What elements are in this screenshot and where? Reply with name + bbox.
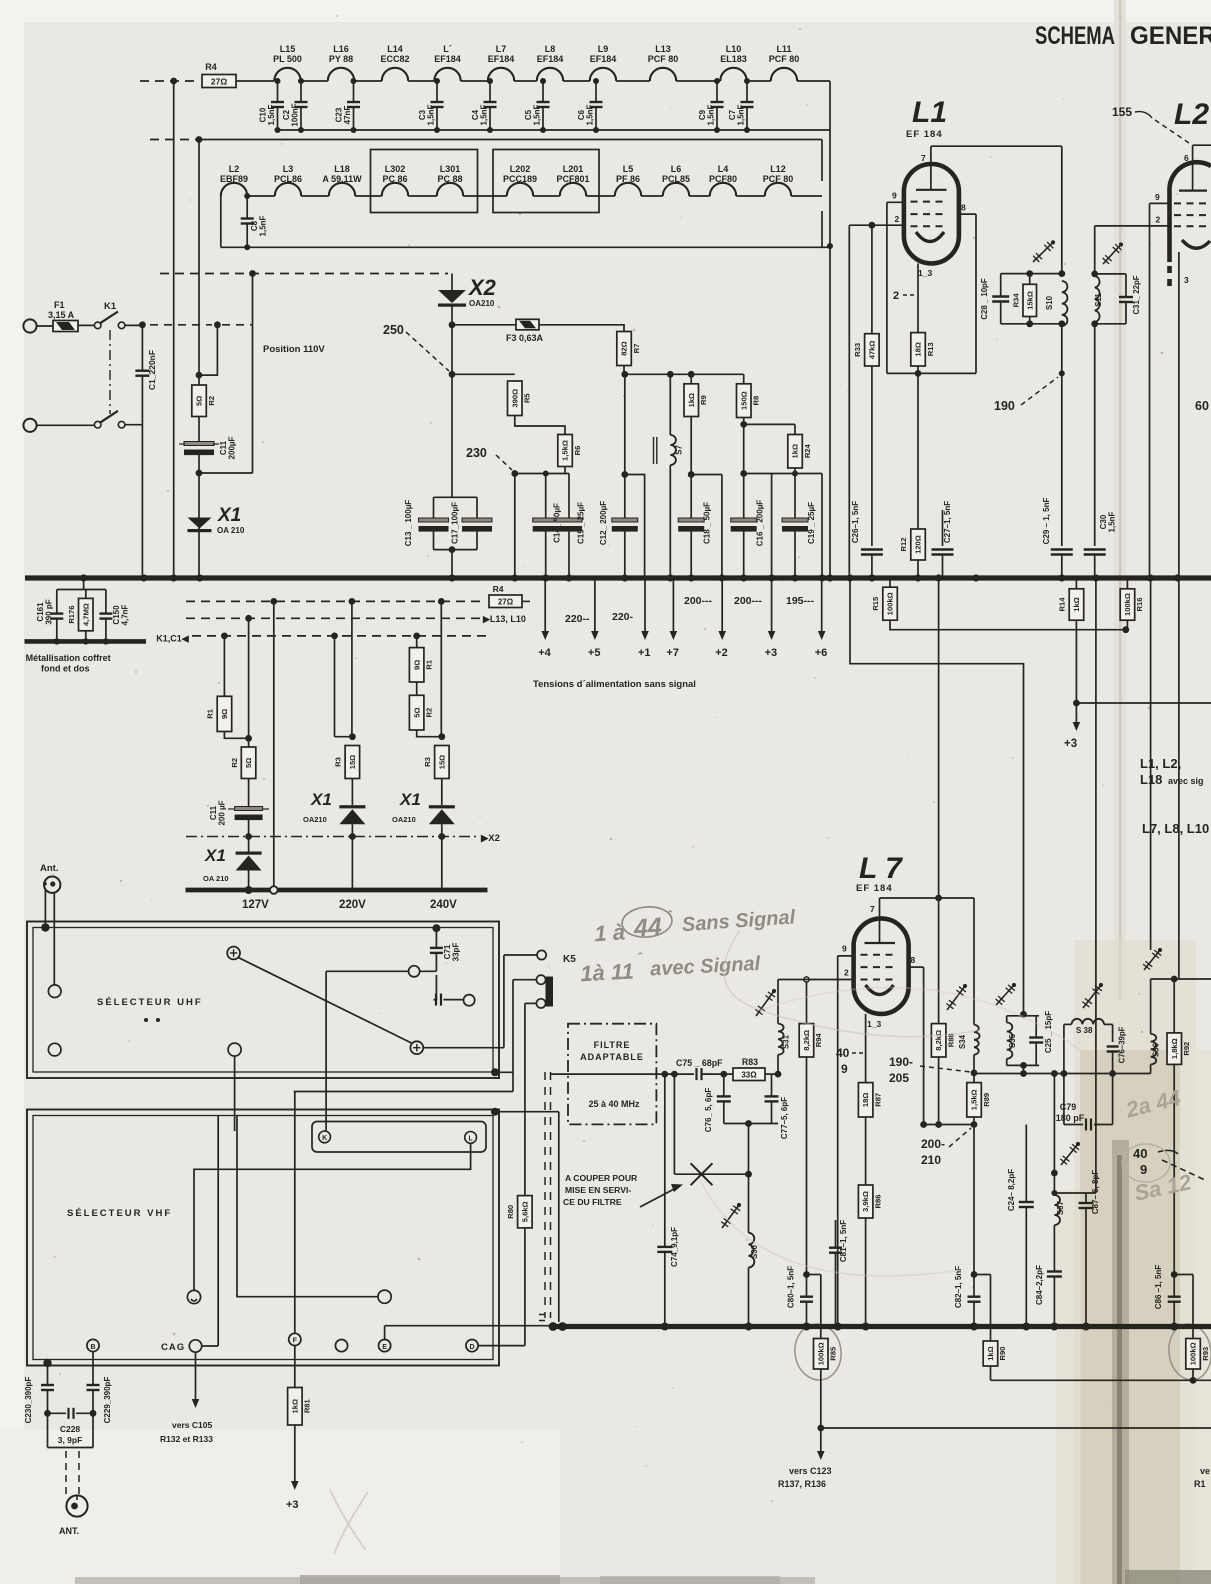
svg-text:5Ω: 5Ω — [195, 396, 204, 406]
wire dashed row y=273 to X2 — [160, 273, 448, 275]
wire R5 column to bus — [514, 474, 516, 579]
svg-text:390 pF: 390 pF — [45, 599, 54, 624]
capacitor C1 (220nF) — [141, 325, 143, 371]
L7 plate bar — [865, 942, 896, 944]
svg-text:MISE EN SERVI-: MISE EN SERVI- — [565, 1185, 631, 1195]
L1 pin 2 wire — [849, 224, 904, 226]
wire dashed mains rail — [150, 324, 212, 326]
svg-text:Tensions d´alimentation sans: Tensions d´alimentation sans signal — [533, 679, 696, 690]
svg-text:Ant.: Ant. — [40, 863, 58, 874]
svg-text:+2: +2 — [715, 647, 728, 659]
resistor R1 (9ohm) col1 — [217, 696, 232, 731]
svg-text:1,5nF: 1,5nF — [586, 104, 595, 125]
svg-text:5Ω: 5Ω — [244, 758, 253, 768]
L1 cathode — [916, 232, 944, 242]
wire grid-return step to S35 — [850, 578, 1024, 1014]
L1 pin 9 wire — [887, 201, 904, 203]
svg-text:R4: R4 — [493, 584, 504, 594]
wire tap to +6 — [821, 474, 823, 579]
L7 pin 8 wire — [909, 966, 924, 968]
capacitor C86 (1,5nF) with R93 elbow — [1171, 1271, 1178, 1278]
capacitor C13 C17 (100uF) loop — [451, 374, 453, 497]
wire E to bus2 — [384, 1326, 386, 1340]
svg-text:ve: ve — [1200, 1466, 1210, 1476]
svg-text:C229_390pF: C229_390pF — [103, 1377, 112, 1424]
wire col1 jog — [224, 732, 248, 739]
tube L7 EF184 envelope — [854, 918, 909, 1014]
resistor R15 (100kohm) — [889, 578, 891, 587]
terminal B — [87, 1339, 99, 1351]
svg-text:190: 190 — [994, 399, 1015, 413]
svg-text:C228: C228 — [60, 1424, 81, 1434]
svg-text:200---: 200--- — [734, 595, 763, 607]
main chassis bus — [25, 575, 1211, 580]
resistor R6 (1,5kohm) — [558, 435, 573, 467]
svg-text:8,2kΩ: 8,2kΩ — [802, 1030, 811, 1051]
filament coil L13 PCF 80 — [650, 68, 676, 81]
node C1 top — [139, 321, 146, 328]
svg-text:OA 210: OA 210 — [203, 874, 229, 883]
wire Ant second lead into box — [53, 893, 55, 986]
svg-text:2: 2 — [1156, 215, 1161, 225]
L7 cathode lead — [865, 1014, 867, 1083]
svg-text:S11: S11 — [1094, 293, 1103, 307]
dashed pair filter ground link — [544, 1072, 546, 1318]
svg-text:PCF 80: PCF 80 — [763, 174, 794, 184]
resistor R1 (9ohm) col3 — [409, 648, 424, 682]
svg-text:200-: 200- — [921, 1137, 945, 1151]
wire connector lower to R80 — [525, 1002, 537, 1004]
svg-text:OA210: OA210 — [392, 815, 416, 824]
svg-text:127V: 127V — [242, 899, 269, 911]
pencil faint curves — [724, 930, 980, 1037]
pencil circle around R93 — [1165, 1321, 1211, 1382]
wire R14 to +3 node — [1075, 620, 1077, 703]
wire Ant to UHF corner — [44, 890, 46, 925]
wire R85 to vers C123 node — [820, 1369, 822, 1428]
trimmer capacitor S37 — [1061, 1144, 1078, 1165]
svg-text:L1: L1 — [912, 96, 947, 129]
capacitor C2 (100nF) heater decoupling — [300, 81, 302, 102]
svg-text:OA210: OA210 — [303, 815, 327, 824]
resistor R80 (5,6kohm) — [518, 1196, 533, 1228]
svg-text:C84–2,2pF: C84–2,2pF — [1035, 1265, 1044, 1305]
svg-text:C18 _ 50µF: C18 _ 50µF — [703, 502, 712, 544]
svg-text:1,5nF: 1,5nF — [259, 215, 268, 236]
svg-text:vers C123: vers C123 — [789, 1466, 832, 1476]
svg-text:40: 40 — [1133, 1146, 1147, 1161]
svg-text:C28 _ 10pF: C28 _ 10pF — [980, 278, 989, 319]
wire L to lower circle — [194, 1143, 471, 1290]
terminal L — [465, 1132, 477, 1144]
inductor S30 — [749, 1233, 755, 1268]
capacitor C228 (3,9pF) box — [44, 1410, 51, 1417]
wire R5 to R6 hook — [515, 416, 565, 435]
inductor S7 smoothing choke — [669, 374, 671, 435]
wire row2 node down to R2 — [198, 140, 200, 386]
wire filter bottom rail — [724, 1123, 778, 1125]
capacitor C76 (5,6pF) — [723, 1074, 725, 1096]
svg-text:FILTRE: FILTRE — [594, 1040, 631, 1050]
svg-text:OA210: OA210 — [469, 299, 495, 308]
wire S37 C87 rail — [1054, 1192, 1096, 1194]
svg-text:X2: X2 — [467, 275, 497, 300]
capacitor C3 (1,5nF) heater decoupling — [436, 81, 438, 102]
svg-text:1kΩ: 1kΩ — [687, 393, 696, 408]
svg-text:1kΩ: 1kΩ — [290, 1399, 299, 1414]
svg-text:C87– 6, 8pF: C87– 6, 8pF — [1091, 1170, 1100, 1215]
svg-text:R7: R7 — [632, 344, 641, 354]
svg-text:avec sig: avec sig — [1168, 776, 1204, 786]
fuse F1 3,15A — [53, 321, 78, 332]
svg-text:CE DU FILTRE: CE DU FILTRE — [563, 1197, 622, 1207]
svg-text:S37: S37 — [1056, 1201, 1065, 1215]
tube L2 envelope partial — [1169, 162, 1211, 262]
wire VHF top right to bus start — [491, 1108, 499, 1116]
svg-text:390Ω: 390Ω — [510, 389, 519, 408]
svg-text:PY 88: PY 88 — [329, 54, 353, 64]
wire 230V rail — [515, 473, 569, 475]
wire switch outputs to C1 node — [125, 324, 142, 326]
wire vertical x=252 to dashed row — [252, 274, 254, 474]
capacitor C18 (50uF) — [688, 471, 695, 478]
diode X1 col3 (OA210) — [441, 779, 443, 806]
large scan stain lower right — [1074, 940, 1196, 1584]
terminal circle VHF mid-left — [187, 1290, 200, 1303]
trimmer capacitor S30 — [722, 1205, 739, 1228]
svg-text:R4: R4 — [205, 62, 217, 72]
svg-text:+4: +4 — [538, 647, 551, 659]
filament coil L15 PL 500 — [274, 68, 300, 81]
wire R7 node rail to S7 R9 — [621, 371, 628, 378]
terminal circle plain bottom — [335, 1340, 347, 1352]
wire chain1 return vertical — [829, 81, 831, 578]
resistor R93 (100kohm) — [1186, 1339, 1201, 1370]
svg-text:R16: R16 — [1135, 598, 1144, 612]
L2 plate and pin6 — [1193, 144, 1211, 146]
svg-text:155: 155 — [1112, 105, 1132, 119]
svg-text:PC 86: PC 86 — [382, 174, 407, 184]
capacitor C8 (1,5nF) — [244, 193, 250, 199]
svg-text:C29 – 1, 5nF: C29 – 1, 5nF — [1042, 498, 1051, 545]
svg-text:R24: R24 — [803, 443, 812, 458]
wire dashed feed to R4 — [140, 80, 199, 82]
tank circuit C28 R34 S10 — [1061, 146, 1063, 273]
svg-text:195---: 195--- — [786, 595, 815, 607]
svg-text:L6: L6 — [671, 164, 682, 174]
capacitor C24 (8,2pF) — [1025, 1125, 1027, 1203]
bus junction dots — [80, 574, 87, 581]
svg-text:1,5kΩ: 1,5kΩ — [561, 440, 570, 461]
svg-text:K5: K5 — [563, 954, 576, 965]
svg-text:L302: L302 — [385, 164, 406, 174]
svg-text:C19 _ 25µF: C19 _ 25µF — [807, 502, 816, 544]
node dashed row position 110V — [249, 270, 256, 277]
svg-text:1à 11: 1à 11 — [580, 958, 635, 986]
svg-text:1_3: 1_3 — [918, 268, 932, 278]
terminal plus UHF upper — [227, 947, 240, 960]
svg-text:ECC82: ECC82 — [380, 54, 409, 64]
resistor R2 (5ohm) mains dropper — [192, 385, 207, 417]
capacitor C29 (1,5nF) — [1051, 548, 1073, 550]
wire connector upper to F rail — [513, 979, 536, 981]
capacitor C71 (33pF) — [432, 924, 440, 932]
inductor S10 — [1062, 281, 1068, 326]
resistor R3 (15ohm) col3 — [435, 746, 450, 779]
svg-text:2: 2 — [893, 290, 899, 302]
capacitor C14 (50uF) — [545, 474, 547, 519]
svg-text:EF 184: EF 184 — [856, 883, 893, 894]
filament coil L3 PCL86 — [275, 183, 301, 196]
capacitor C26 (1,5nF) — [861, 548, 883, 550]
terminal mains upper — [23, 319, 36, 332]
filament coil L18 A 59,11W — [329, 183, 355, 196]
wire L1 anode top — [931, 145, 1062, 147]
svg-text:PL 500: PL 500 — [273, 54, 302, 64]
terminal ANT bottom — [66, 1495, 87, 1516]
svg-text:15kΩ: 15kΩ — [1025, 291, 1034, 310]
resistor R85 (100kohm) — [814, 1339, 829, 1370]
wire rail R89 S35 S38 S36 — [974, 1073, 1151, 1075]
svg-text:L7: L7 — [496, 44, 507, 54]
resistor R87 (18ohm) — [858, 1083, 873, 1117]
svg-text:R2: R2 — [207, 396, 216, 406]
L2 grid dashes — [1174, 202, 1211, 204]
wire filter row — [551, 1073, 694, 1075]
paper speckles — [408, 244, 410, 246]
svg-text:R3: R3 — [423, 757, 432, 767]
svg-text:C1_220nF: C1_220nF — [147, 350, 157, 390]
svg-text:200 µF: 200 µF — [218, 800, 227, 825]
capacitor C31 (22pF) — [1125, 274, 1127, 297]
svg-text:S31: S31 — [782, 1034, 791, 1049]
svg-text:120Ω: 120Ω — [914, 535, 923, 554]
pencil scribble 2a44 right — [1123, 1085, 1183, 1123]
svg-text:R137, R136: R137, R136 — [778, 1479, 826, 1489]
svg-text:7: 7 — [921, 153, 926, 163]
svg-text:100kΩ: 100kΩ — [1189, 1342, 1198, 1365]
bottom scan edge band — [75, 1577, 815, 1584]
svg-text:K1,C1◀: K1,C1◀ — [156, 634, 190, 644]
svg-text:205: 205 — [889, 1071, 909, 1085]
svg-text:9: 9 — [842, 944, 847, 954]
svg-text:R5: R5 — [523, 393, 532, 403]
svg-text:PC 88: PC 88 — [437, 174, 462, 184]
svg-text:PCC189: PCC189 — [503, 174, 537, 184]
svg-text:R12: R12 — [899, 538, 908, 552]
svg-text:C76–39pF: C76–39pF — [1118, 1026, 1127, 1063]
svg-text:9: 9 — [892, 191, 897, 201]
capacitor C11 (200uF) electrolytic — [184, 442, 214, 446]
filament coil L11 PCF 80 — [771, 68, 797, 81]
resistor R83 (33ohm) — [733, 1068, 765, 1081]
svg-text:220V: 220V — [339, 899, 366, 911]
svg-text:EF184: EF184 — [537, 54, 564, 64]
inductor S36 — [1150, 578, 1152, 950]
filament coil L14 ECC82 — [382, 68, 408, 81]
filament coil L302 PC 86 — [382, 183, 408, 196]
terminal circle UHF left lower — [48, 1043, 61, 1056]
wire chain1 segments — [301, 80, 328, 82]
inductor S37 — [1054, 1195, 1060, 1225]
svg-text:L10: L10 — [726, 44, 742, 54]
L7 pin 9 wire — [838, 955, 854, 957]
tank S11 C31 — [1094, 226, 1096, 274]
svg-text:L2: L2 — [229, 164, 240, 174]
svg-text:S30: S30 — [750, 1244, 759, 1259]
switch K1 upper pole — [94, 322, 101, 329]
wire chain1 cap rail — [278, 129, 831, 131]
capacitor C16 (200uF) — [743, 474, 745, 519]
svg-text:27Ω: 27Ω — [211, 77, 227, 87]
arrow vers C123 — [820, 1428, 822, 1453]
filament coil L&#180; EF184 — [434, 68, 460, 81]
svg-text:1kΩ: 1kΩ — [1072, 597, 1081, 612]
svg-text:A 59,11W: A 59,11W — [322, 174, 362, 184]
capacitor C82 (1,5nF) with R90 elbow — [973, 1275, 975, 1297]
series capacitor link to circle — [434, 975, 437, 1000]
annotation arrow to X — [640, 1188, 676, 1207]
svg-text:1,5nF: 1,5nF — [267, 104, 276, 125]
wire 220V tap rail to +1 — [625, 475, 645, 579]
wire R4 to chain — [236, 80, 274, 82]
wire 200V tap to +2 — [721, 475, 723, 579]
X cut mark — [691, 1163, 713, 1185]
svg-text:SÉLECTEUR VHF: SÉLECTEUR VHF — [67, 1208, 172, 1219]
svg-text:220-: 220- — [612, 611, 634, 623]
svg-text:A COUPER POUR: A COUPER POUR — [565, 1173, 638, 1183]
wire tap to +3 — [771, 474, 773, 579]
svg-text:R89: R89 — [982, 1093, 991, 1107]
svg-text:R2: R2 — [230, 758, 239, 768]
svg-text:R1: R1 — [1194, 1479, 1206, 1489]
svg-text:C230_390pF: C230_390pF — [24, 1377, 33, 1424]
capacitor C19 (25uF) — [794, 474, 796, 519]
svg-text:L301: L301 — [440, 164, 461, 174]
svg-text:vers C105: vers C105 — [172, 1420, 212, 1430]
resistor R2 (5ohm) col3 — [409, 695, 424, 730]
svg-text:F1: F1 — [54, 300, 65, 310]
node 250V rail — [449, 371, 456, 378]
svg-text:PCF80: PCF80 — [709, 174, 737, 184]
inductor S11 — [1095, 276, 1100, 322]
resistor R2 (5ohm) col1 — [241, 747, 256, 779]
svg-text:L13: L13 — [655, 44, 671, 54]
dashed row 2 to L13 L10 — [186, 617, 480, 619]
arrow CAG vers C105 — [195, 1352, 197, 1401]
svg-text:L12: L12 — [770, 164, 786, 174]
filament coil L5 PF 86 — [615, 183, 641, 196]
svg-text:R93: R93 — [1201, 1347, 1210, 1361]
svg-text:ADAPTABLE: ADAPTABLE — [580, 1052, 644, 1062]
wire lower to switch — [37, 424, 95, 426]
svg-text:C14_ 50µF: C14_ 50µF — [553, 503, 562, 543]
capacitor C78 (39pF) — [1107, 1045, 1119, 1047]
terminal F — [289, 1333, 301, 1345]
svg-text:X1: X1 — [310, 790, 332, 809]
resistor R4 (27ohm) heater chain — [202, 75, 236, 88]
svg-text:1,5nF: 1,5nF — [737, 104, 746, 125]
switch K1 linkage dash-dot — [109, 330, 111, 414]
svg-text:EF184: EF184 — [488, 54, 515, 64]
svg-text:OA 210: OA 210 — [217, 526, 245, 535]
svg-text:R3: R3 — [334, 757, 343, 767]
capacitor C28 (10pF) — [1000, 274, 1002, 297]
svg-text:▶X2: ▶X2 — [480, 833, 500, 844]
capacitor C11 (200uF) col1 — [248, 779, 250, 807]
svg-text:100kΩ: 100kΩ — [1123, 593, 1132, 616]
svg-text:3, 9pF: 3, 9pF — [58, 1435, 83, 1445]
filament coil L4 PCF80 — [710, 183, 736, 196]
svg-text:82Ω: 82Ω — [620, 341, 629, 356]
svg-text:5Ω: 5Ω — [412, 707, 421, 717]
L1 cathode lead with 2 dashed — [917, 263, 919, 332]
capacitor C74 (9,1pF) — [664, 1074, 666, 1247]
terminal D — [466, 1340, 478, 1352]
terminal K — [319, 1131, 331, 1143]
wire R90 R93 rail — [991, 1379, 1211, 1381]
wire S11 bottom to bus — [1094, 324, 1096, 546]
svg-text:150Ω: 150Ω — [739, 391, 748, 410]
resistor R9 (1kohm) — [690, 374, 692, 384]
wire S30 column — [748, 1124, 750, 1233]
L2 pin 9 wire — [1150, 202, 1170, 204]
wire column2 — [334, 636, 336, 737]
svg-text:C75 _ 68pF: C75 _ 68pF — [676, 1058, 723, 1068]
svg-text:1,5nF: 1,5nF — [427, 104, 436, 125]
svg-text:R81: R81 — [303, 1398, 312, 1413]
svg-text:9: 9 — [841, 1062, 848, 1076]
svg-text:EBF89: EBF89 — [220, 174, 248, 184]
filament coil L301 PC 88 — [437, 183, 463, 196]
svg-text:SCHEMA: SCHEMA — [1035, 22, 1115, 50]
svg-text:R8: R8 — [752, 396, 761, 406]
svg-text:230: 230 — [466, 446, 487, 460]
svg-text:L202: L202 — [510, 164, 531, 174]
svg-text:R14: R14 — [1058, 597, 1067, 612]
trimmer capacitor L1 tank — [1033, 242, 1053, 262]
wire column to mid circle — [237, 1116, 378, 1297]
box SELECTEUR UHF double border — [27, 922, 499, 1079]
resistor R12 (120ohm) — [917, 373, 919, 529]
wire R8 to R24 — [743, 418, 745, 474]
svg-text:+3: +3 — [1064, 738, 1077, 750]
svg-text:PCF801: PCF801 — [556, 174, 589, 184]
scan fold line right side — [1114, 0, 1126, 1000]
svg-text:L 7: L 7 — [859, 852, 903, 885]
svg-text:60: 60 — [1195, 399, 1209, 413]
svg-text:L18: L18 — [334, 164, 350, 174]
wire R83 to S31 node — [765, 1073, 778, 1075]
box K L inner — [312, 1122, 486, 1153]
dashed row 1 to R4b — [186, 600, 486, 602]
svg-text:1,5nF: 1,5nF — [533, 104, 542, 125]
svg-text:9Ω: 9Ω — [412, 660, 421, 670]
diode X1 col2 (OA210) — [351, 779, 353, 806]
svg-text:R33: R33 — [853, 343, 862, 357]
svg-text:+3: +3 — [765, 647, 778, 659]
svg-text:C76_ 5, 6pF: C76_ 5, 6pF — [704, 1088, 713, 1133]
svg-text:L4: L4 — [718, 164, 729, 174]
svg-text:S35: S35 — [1008, 1033, 1017, 1048]
svg-text:C17_100µF: C17_100µF — [451, 502, 460, 544]
filament coil L201 PCF801 — [560, 183, 586, 196]
svg-text:5,6kΩ: 5,6kΩ — [521, 1201, 530, 1222]
trimmer capacitor S35 — [996, 985, 1014, 1005]
svg-text:L: L — [468, 1136, 473, 1143]
svg-text:EF 184: EF 184 — [906, 129, 943, 140]
svg-text:L11: L11 — [776, 44, 791, 54]
